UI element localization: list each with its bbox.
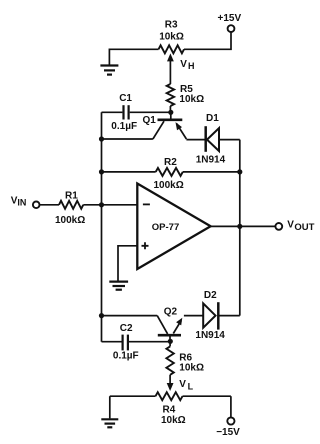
junction dot Q2 base / C2 / R6 [168,339,173,344]
junction dot output / right rail [237,224,242,229]
svg-text:V: V [179,379,186,390]
wire R4 left to ground drop [109,396,111,418]
wire Q1 emitter to D1 [186,139,205,141]
transistor Q2 [157,307,182,341]
junction dot left rail / R1 / inverting input [99,202,104,207]
svg-text:Q1: Q1 [143,115,157,126]
svg-text:R1: R1 [65,190,78,201]
ground (bottom-left) [101,419,118,427]
svg-text:D1: D1 [206,113,219,124]
input V_IN [11,195,40,208]
svg-text:10kΩ: 10kΩ [159,32,184,43]
svg-text:H: H [188,61,195,71]
right vertical rail [239,140,241,316]
op-amp U1 OP-77 [137,184,210,270]
resistor R3 (potentiometer) [159,20,184,54]
ground (top-left) [100,66,118,75]
wire from +15V down and left to R3 [184,32,231,49]
svg-text:R3: R3 [165,20,178,31]
svg-text:C2: C2 [120,323,133,334]
svg-text:+15V: +15V [218,13,242,24]
resistor R1 [40,190,138,225]
node V_H [180,59,194,71]
wire R4 right down to -15V terminal [230,396,232,417]
svg-text:V: V [287,220,294,231]
svg-text:100kΩ: 100kΩ [154,180,184,191]
node V_L [179,379,193,392]
svg-text:1N914: 1N914 [196,155,226,166]
wire C2 right plate to Q2 base node [129,341,170,343]
svg-text:D2: D2 [204,290,217,301]
resistor R6 [166,341,204,375]
svg-text:10kΩ: 10kΩ [179,94,204,105]
svg-text:Q2: Q2 [164,307,178,318]
junction dot left rail / R2 [99,169,104,174]
wire left rail corner to C1 left plate [102,111,123,113]
svg-text:R2: R2 [164,157,177,168]
diode D1 [196,113,226,166]
svg-text:R4: R4 [163,404,176,415]
capacitor C2 [113,323,139,362]
svg-text:0.1µF: 0.1µF [111,121,137,132]
wire Q2 collector row [102,315,158,317]
terminal +15V [218,13,242,32]
svg-text:C1: C1 [119,93,132,104]
svg-text:OP-77: OP-77 [152,222,179,233]
svg-text:−15V: −15V [216,427,240,438]
wire D2 to right rail [218,315,240,317]
transistor Q1 [143,112,187,139]
wire Q2 emitter to D2 [184,315,203,317]
svg-text:1N914: 1N914 [195,330,225,341]
terminal -15V [216,417,240,438]
ground (op-amp +) [109,282,128,290]
svg-text:100kΩ: 100kΩ [55,215,85,226]
svg-text:0.1µF: 0.1µF [113,351,139,362]
svg-text:10kΩ: 10kΩ [161,415,186,426]
node junction R5/C1/Q1 base [168,110,173,115]
wire Q1 collector row [102,138,153,140]
wire non-inverting input to ground [118,246,137,281]
svg-text:10kΩ: 10kΩ [179,363,204,374]
svg-text:L: L [188,381,194,391]
svg-text:IN: IN [17,198,26,208]
wiper arrow of R3 [167,53,174,84]
left vertical rail [101,112,103,341]
svg-text:V: V [180,59,187,70]
resistor R4 (potentiometer) [110,392,231,426]
wire C1 right plate to base node [130,111,171,113]
terminal V_OUT [275,220,314,234]
wire D1 to right rail [219,139,240,141]
svg-text:OUT: OUT [294,222,314,233]
wire left rail corner to C2 left plate [102,341,122,343]
wire op-amp output [211,225,276,227]
diode D2 [195,290,225,341]
wiper arrow of R4 [167,375,174,391]
resistor R5 [167,84,204,112]
resistor R2 [102,157,240,191]
junction dot left rail / Q1 collector [99,136,104,141]
wire from R3 left end to ground drop [109,49,158,64]
capacitor C1 [111,93,137,132]
junction dot right rail / R2 [237,169,242,174]
junction dot left rail / Q2 collector [99,313,104,318]
